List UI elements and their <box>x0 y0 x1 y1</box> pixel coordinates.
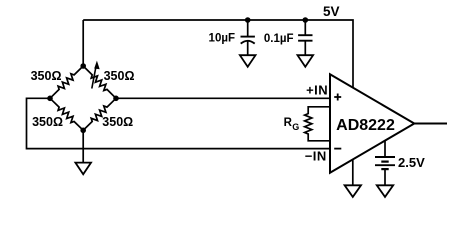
wire amp V- to ground <box>352 160 354 186</box>
svg-text:350Ω: 350Ω <box>102 115 133 129</box>
svg-text:AD8222: AD8222 <box>336 117 395 134</box>
capacitor C1 10uF polarized <box>247 20 249 37</box>
ground battery <box>377 185 393 197</box>
resistor R-bridge-topleft 350ohm <box>50 66 83 98</box>
node bridge-left <box>47 96 53 102</box>
wire bridge top to rail <box>82 20 84 66</box>
battery V1 2.5V <box>384 141 386 157</box>
op-amp U1 AD8222 <box>330 74 414 172</box>
svg-text:350Ω: 350Ω <box>32 115 63 129</box>
resistor RG <box>305 107 330 141</box>
node junction C2-rail <box>303 17 309 23</box>
ground bridge <box>75 163 91 175</box>
svg-text:350Ω: 350Ω <box>31 69 62 83</box>
wire output <box>414 123 447 125</box>
wire bridge-right to +IN <box>116 97 330 99</box>
pin minus-sign <box>334 148 341 150</box>
resistor R-bridge-bottomright 350ohm <box>83 98 116 130</box>
svg-text:G: G <box>292 122 299 132</box>
pin plus-sign <box>334 96 341 98</box>
svg-text:2.5V: 2.5V <box>398 155 425 170</box>
wire 5V rail top <box>83 20 353 88</box>
svg-text:350Ω: 350Ω <box>104 69 135 83</box>
node bridge-top <box>80 63 86 69</box>
node junction C1-rail <box>245 17 251 23</box>
ground C2 <box>298 55 314 67</box>
svg-text:−IN: −IN <box>305 149 327 164</box>
svg-text:5V: 5V <box>323 4 340 19</box>
svg-text:10µF: 10µF <box>209 32 235 44</box>
svg-text:0.1µF: 0.1µF <box>264 33 294 45</box>
resistor R-bridge-topright 350ohm variable <box>83 66 116 98</box>
wire bridge-left loop to -IN <box>27 98 331 148</box>
svg-text:+IN: +IN <box>306 83 328 98</box>
node bridge-bottom <box>80 128 86 134</box>
arrow variable-resistor <box>92 67 96 89</box>
ground C1 <box>240 55 256 67</box>
wire bridge-bottom to ground <box>82 130 84 162</box>
node bridge-right <box>113 96 119 102</box>
resistor R-bridge-bottomleft 350ohm <box>50 98 83 130</box>
ground amp <box>345 185 361 197</box>
capacitor C2 0.1uF <box>304 20 306 35</box>
